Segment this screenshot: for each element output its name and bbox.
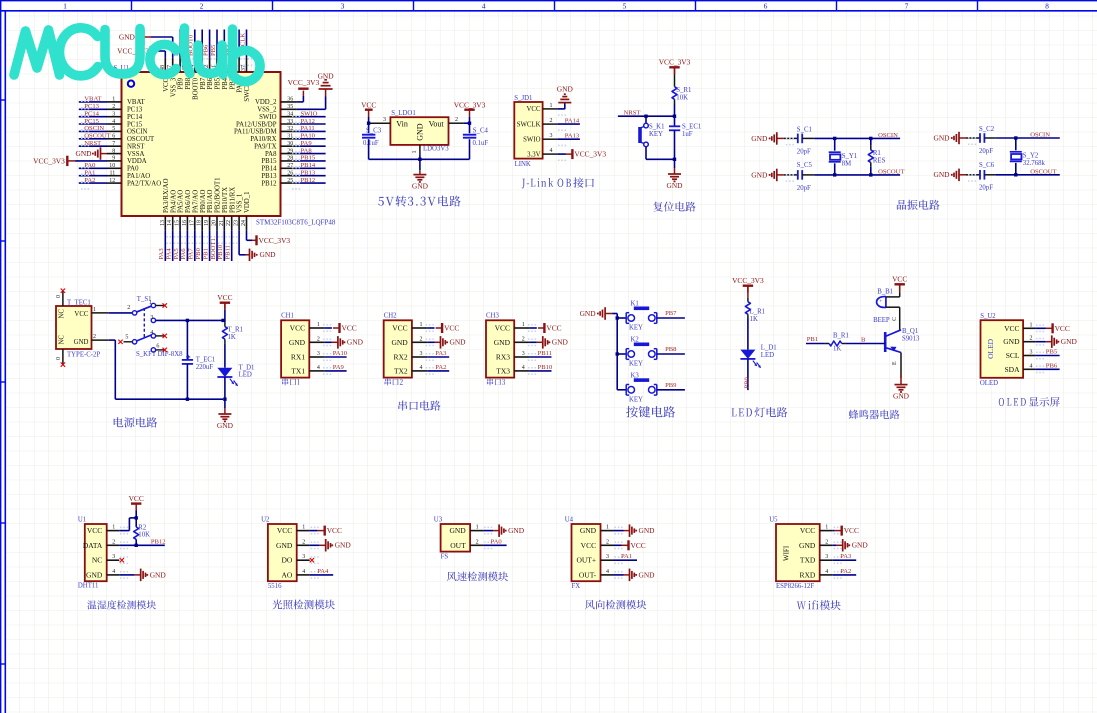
svg-text:GND: GND [335, 541, 352, 550]
svg-text:0: 0 [56, 357, 62, 360]
svg-text:PB10: PB10 [538, 364, 553, 371]
svg-text:VCC: VCC [546, 324, 561, 333]
svg-text:VCC: VCC [217, 293, 232, 302]
svg-text:4: 4 [302, 569, 305, 575]
svg-text:PA1: PA1 [621, 553, 632, 560]
svg-text:1: 1 [420, 322, 423, 328]
svg-text:6: 6 [112, 134, 115, 140]
svg-text:KEY: KEY [629, 396, 643, 403]
svg-text:PA0: PA0 [491, 538, 503, 545]
svg-text:21: 21 [219, 220, 225, 226]
svg-text:1: 1 [476, 525, 479, 531]
svg-text:S_C3: S_C3 [366, 127, 382, 134]
svg-text:5: 5 [112, 126, 115, 132]
svg-text:2: 2 [112, 539, 115, 545]
svg-text:GND: GND [1003, 337, 1020, 346]
svg-text:GND: GND [508, 526, 525, 535]
svg-text:TYPE-C-2P: TYPE-C-2P [67, 352, 100, 359]
svg-text:PA7: PA7 [188, 248, 195, 260]
svg-text:GND: GND [852, 541, 869, 550]
svg-text:OSCIN: OSCIN [84, 125, 104, 132]
svg-text:OSCIN: OSCIN [878, 132, 898, 139]
svg-text:PA6: PA6 [180, 248, 187, 260]
svg-text:OUT-: OUT- [579, 570, 597, 579]
svg-text:SWIO: SWIO [301, 111, 318, 118]
svg-text:GND: GND [318, 71, 335, 80]
svg-text:WIFI: WIFI [782, 545, 790, 561]
svg-text:GND: GND [119, 32, 136, 41]
svg-text:PB5: PB5 [1046, 349, 1058, 356]
svg-text:2: 2 [127, 305, 130, 311]
svg-text:OLED: OLED [986, 338, 995, 359]
svg-text:1: 1 [825, 525, 828, 531]
svg-text:VDDA: VDDA [127, 158, 147, 165]
svg-text:PA3: PA3 [158, 248, 165, 260]
svg-text:S_EC1: S_EC1 [682, 124, 701, 131]
svg-text:PA0: PA0 [127, 166, 139, 173]
svg-text:12: 12 [109, 178, 115, 184]
svg-text:TXD: TXD [800, 556, 816, 565]
svg-text:PC14: PC14 [84, 111, 99, 118]
svg-text:PB13: PB13 [301, 170, 316, 177]
svg-text:11: 11 [110, 171, 116, 177]
svg-text:PA4: PA4 [317, 568, 329, 575]
svg-text:PB1: PB1 [202, 248, 209, 259]
svg-text:OSCIN: OSCIN [1030, 132, 1050, 139]
svg-text:VCC: VCC [495, 324, 510, 333]
svg-text:3.3V: 3.3V [527, 151, 540, 158]
svg-text:PA13: PA13 [565, 133, 580, 140]
svg-text:K1: K1 [631, 301, 639, 308]
svg-text:K2: K2 [631, 337, 640, 344]
svg-text:OUT+: OUT+ [576, 556, 596, 565]
svg-text:3: 3 [420, 351, 423, 357]
svg-text:1: 1 [412, 151, 418, 154]
svg-text:4: 4 [606, 569, 609, 575]
svg-text:PB12: PB12 [301, 177, 316, 184]
svg-text:VCC: VCC [631, 541, 646, 550]
svg-text:2: 2 [825, 539, 828, 545]
svg-text:PA2: PA2 [840, 568, 851, 575]
svg-text:4: 4 [420, 365, 423, 371]
svg-text:GND: GND [75, 149, 92, 158]
svg-text:8M: 8M [842, 160, 851, 167]
svg-text:VCC: VCC [361, 101, 376, 110]
svg-text:PB6: PB6 [1046, 362, 1058, 369]
svg-text:VSSA: VSSA [127, 151, 144, 158]
svg-text:T_R1: T_R1 [228, 327, 243, 334]
svg-text:VCC: VCC [129, 494, 144, 503]
svg-text:R2: R2 [138, 524, 147, 531]
svg-text:PB14: PB14 [301, 162, 316, 169]
svg-text:U5: U5 [769, 516, 778, 523]
svg-text:OSCOUT: OSCOUT [127, 136, 155, 143]
svg-text:GND: GND [751, 134, 768, 143]
svg-text:S_R1: S_R1 [676, 87, 691, 94]
svg-text:PA12/USB/DP: PA12/USB/DP [236, 121, 277, 128]
svg-text:PA7/AO: PA7/AO [192, 190, 199, 213]
svg-text:36: 36 [287, 97, 293, 103]
svg-text:LDO3V3: LDO3V3 [423, 146, 449, 153]
svg-text:GND: GND [933, 170, 950, 179]
svg-text:VDD_2: VDD_2 [255, 99, 277, 106]
svg-text:4: 4 [550, 148, 553, 154]
svg-text:VCC: VCC [74, 311, 88, 318]
svg-text:1K: 1K [750, 316, 758, 323]
svg-text:22: 22 [226, 220, 232, 226]
svg-text:7: 7 [112, 141, 115, 147]
svg-text:VCC: VCC [892, 275, 907, 284]
svg-text:FS: FS [441, 554, 449, 561]
svg-text:KEY: KEY [629, 325, 643, 332]
svg-text:DHT11: DHT11 [78, 583, 99, 590]
svg-text:PC15: PC15 [127, 121, 143, 128]
svg-text:GND: GND [666, 181, 683, 190]
svg-text:E: E [892, 361, 898, 365]
svg-text:VCC: VCC [1055, 324, 1070, 333]
svg-text:NRST: NRST [624, 109, 641, 116]
svg-text:S_C4: S_C4 [473, 127, 489, 134]
svg-text:GND: GND [933, 133, 950, 142]
svg-text:FX: FX [572, 583, 581, 590]
svg-text:1: 1 [302, 525, 305, 531]
svg-text:VDD_1: VDD_1 [244, 191, 251, 213]
svg-text:GND: GND [450, 338, 467, 347]
svg-text:3: 3 [302, 554, 305, 560]
svg-text:PA9: PA9 [333, 364, 345, 371]
svg-text:PA11/USB/DM: PA11/USB/DM [234, 129, 277, 136]
svg-text:VCC: VCC [581, 541, 596, 550]
svg-text:2: 2 [1030, 336, 1033, 342]
svg-text:S9013: S9013 [902, 336, 920, 343]
svg-text:3: 3 [606, 554, 609, 560]
svg-text:PB15: PB15 [261, 158, 277, 165]
svg-text:1: 1 [112, 525, 115, 531]
svg-text:1K: 1K [833, 345, 841, 352]
svg-text:23: 23 [234, 220, 240, 226]
svg-text:U2: U2 [261, 516, 270, 523]
svg-text:6: 6 [156, 344, 159, 350]
svg-text:2: 2 [200, 2, 204, 10]
svg-text:CH3: CH3 [486, 313, 499, 320]
svg-text:GND: GND [1061, 337, 1078, 346]
svg-text:PA10: PA10 [333, 350, 348, 357]
svg-text:CH1: CH1 [281, 313, 294, 320]
svg-text:GND: GND [150, 570, 167, 579]
svg-text:PA8: PA8 [301, 147, 313, 154]
svg-text:RX1: RX1 [291, 353, 305, 362]
svg-text:OSCOUT: OSCOUT [1030, 168, 1056, 175]
svg-text:VSS_2: VSS_2 [257, 107, 277, 114]
svg-text:PB13: PB13 [261, 173, 277, 180]
svg-text:GND: GND [639, 570, 656, 579]
svg-text:R1: R1 [873, 150, 881, 157]
svg-text:GND: GND [494, 338, 511, 347]
svg-text:3: 3 [522, 351, 525, 357]
svg-text:S_C5: S_C5 [797, 162, 813, 169]
svg-text:U1: U1 [78, 516, 86, 523]
svg-text:15: 15 [175, 220, 181, 226]
svg-text:PB8: PB8 [185, 77, 192, 89]
svg-text:PB6: PB6 [202, 44, 209, 56]
svg-text:PB5: PB5 [215, 77, 222, 89]
svg-text:PB10/TX: PB10/TX [222, 187, 229, 213]
svg-text:3: 3 [150, 315, 153, 321]
svg-text:T_EC1: T_EC1 [196, 356, 216, 363]
svg-text:PC14: PC14 [127, 114, 143, 121]
svg-text:PA0: PA0 [84, 162, 96, 169]
svg-text:PB11: PB11 [225, 245, 232, 259]
svg-text:14: 14 [167, 220, 173, 226]
svg-text:1: 1 [1030, 322, 1033, 328]
svg-text:NC: NC [59, 309, 66, 319]
svg-text:4: 4 [825, 569, 828, 575]
svg-text:PA9: PA9 [301, 140, 313, 147]
svg-text:PA10: PA10 [301, 133, 316, 140]
svg-text:4: 4 [482, 2, 486, 10]
svg-text:PA14: PA14 [565, 118, 580, 125]
svg-text:2: 2 [606, 539, 609, 545]
svg-text:PA5: PA5 [173, 248, 180, 260]
svg-text:PC15: PC15 [84, 118, 99, 125]
svg-text:AO: AO [281, 570, 292, 579]
svg-text:VBAT: VBAT [127, 99, 146, 106]
svg-text:GND: GND [639, 526, 656, 535]
svg-text:20pF: 20pF [979, 148, 993, 155]
svg-text:T_D1: T_D1 [239, 364, 255, 371]
svg-text:20pF: 20pF [797, 148, 811, 155]
svg-text:PA3/RX/AO: PA3/RX/AO [163, 178, 170, 213]
svg-text:PB0: PB0 [195, 247, 202, 259]
svg-text:PB0/AO: PB0/AO [200, 189, 207, 213]
svg-text:GND: GND [391, 338, 408, 347]
svg-text:NRST: NRST [127, 144, 145, 151]
svg-text:PB9: PB9 [178, 77, 185, 89]
svg-text:VCC: VCC [342, 324, 357, 333]
svg-text:2: 2 [550, 118, 553, 124]
svg-text:PB8: PB8 [665, 346, 677, 353]
svg-text:VCC: VCC [800, 526, 815, 535]
svg-text:VCC: VCC [444, 324, 459, 333]
svg-text:PA3: PA3 [435, 350, 447, 357]
svg-text:VCC_3V3: VCC_3V3 [454, 101, 486, 110]
svg-text:RES: RES [873, 158, 886, 165]
svg-text:VSS_3: VSS_3 [170, 77, 177, 97]
svg-text:24: 24 [241, 220, 247, 226]
svg-text:18: 18 [197, 220, 203, 226]
svg-text:PC13: PC13 [84, 103, 99, 110]
svg-text:PB10: PB10 [217, 244, 224, 259]
svg-text:2: 2 [455, 117, 458, 123]
svg-text:3: 3 [383, 117, 386, 123]
svg-text:VCC_3V3: VCC_3V3 [574, 150, 606, 159]
svg-text:7: 7 [905, 2, 909, 10]
svg-text:PA3: PA3 [840, 553, 852, 560]
svg-text:VCC: VCC [277, 526, 292, 535]
svg-text:3: 3 [341, 2, 345, 10]
svg-text:GND: GND [289, 338, 306, 347]
svg-text:PA4/AO: PA4/AO [170, 190, 177, 213]
svg-text:GND: GND [347, 338, 364, 347]
svg-text:+: + [879, 299, 882, 305]
svg-text:VCC: VCC [527, 106, 541, 113]
svg-text:16: 16 [182, 220, 188, 226]
svg-text:4: 4 [317, 365, 320, 371]
svg-text:KEY: KEY [629, 361, 643, 368]
svg-text:L_R1: L_R1 [750, 309, 765, 316]
svg-text:10K: 10K [676, 95, 688, 102]
svg-text:SCL: SCL [1006, 351, 1020, 360]
svg-text:20pF: 20pF [797, 185, 811, 192]
svg-text:PA1: PA1 [84, 170, 95, 177]
svg-text:PA5/AO: PA5/AO [178, 190, 185, 213]
svg-text:LINK: LINK [515, 161, 531, 168]
svg-text:8: 8 [1045, 2, 1049, 10]
svg-text:2: 2 [302, 539, 305, 545]
svg-text:SWIO: SWIO [259, 114, 276, 121]
svg-text:1: 1 [522, 322, 525, 328]
svg-text:GND: GND [557, 85, 574, 94]
svg-text:B: B [861, 336, 866, 343]
svg-text:VBAT: VBAT [84, 96, 101, 103]
svg-text:NRST: NRST [84, 140, 101, 147]
svg-text:Vin: Vin [396, 119, 408, 128]
svg-text:PA2: PA2 [435, 364, 446, 371]
svg-text:CH2: CH2 [384, 313, 397, 320]
svg-text:VCC_3V3: VCC_3V3 [259, 236, 291, 245]
svg-text:PA1/AO: PA1/AO [127, 173, 150, 180]
svg-text:PA8: PA8 [265, 151, 277, 158]
svg-text:0.1uF: 0.1uF [363, 140, 379, 147]
svg-text:S_C2: S_C2 [979, 126, 995, 133]
svg-text:NC: NC [92, 556, 102, 565]
svg-text:4: 4 [112, 119, 115, 125]
svg-text:PA10/RX: PA10/RX [250, 136, 276, 143]
svg-text:VCC: VCC [1004, 324, 1019, 333]
svg-text:VCC_3V3: VCC_3V3 [33, 156, 65, 165]
svg-text:20pF: 20pF [979, 185, 993, 192]
svg-text:2: 2 [317, 336, 320, 342]
svg-text:17: 17 [189, 220, 195, 226]
svg-text:2: 2 [112, 104, 115, 110]
svg-text:BOOT0: BOOT0 [192, 77, 199, 100]
svg-text:220uF: 220uF [196, 364, 214, 371]
svg-text:PA12: PA12 [301, 118, 315, 125]
svg-text:32.768k: 32.768k [1023, 160, 1046, 167]
svg-text:5: 5 [623, 2, 627, 10]
svg-text:PB9: PB9 [665, 382, 677, 389]
svg-text:4: 4 [150, 330, 153, 336]
svg-text:1uF: 1uF [682, 131, 693, 138]
svg-text:4: 4 [112, 569, 115, 575]
svg-text:PB7: PB7 [665, 310, 677, 317]
svg-text:S_U2: S_U2 [980, 313, 996, 320]
svg-text:C: C [892, 317, 898, 321]
svg-text:3: 3 [825, 554, 828, 560]
svg-text:1: 1 [93, 307, 96, 313]
svg-text:S_C1: S_C1 [797, 127, 812, 134]
svg-text:S_KFT DIP-8X8: S_KFT DIP-8X8 [136, 351, 183, 358]
svg-text:6: 6 [764, 2, 768, 10]
svg-text:PB1: PB1 [807, 336, 818, 343]
svg-text:PB12: PB12 [151, 538, 166, 545]
svg-text:1: 1 [149, 300, 152, 306]
svg-text:S_Y1: S_Y1 [842, 153, 858, 160]
svg-text:VCC_3V3: VCC_3V3 [732, 276, 764, 285]
svg-text:KEY: KEY [649, 131, 663, 138]
svg-text:B_B1: B_B1 [877, 289, 893, 296]
svg-text:PB1/AO: PB1/AO [207, 189, 214, 213]
svg-text:PA2: PA2 [84, 177, 95, 184]
svg-text:PB12: PB12 [261, 180, 277, 187]
svg-text:PB15: PB15 [301, 155, 316, 162]
svg-text:GND: GND [552, 338, 569, 347]
svg-text:1: 1 [606, 525, 609, 531]
svg-text:4: 4 [522, 365, 525, 371]
svg-text:U3: U3 [434, 516, 443, 523]
svg-text:RXD: RXD [799, 570, 815, 579]
svg-text:37: 37 [241, 65, 247, 71]
svg-text:PC13: PC13 [127, 107, 143, 114]
svg-text:GND: GND [449, 526, 466, 535]
svg-text:DO: DO [281, 556, 292, 565]
svg-text:10K: 10K [138, 532, 150, 539]
svg-text:35: 35 [287, 104, 293, 110]
svg-text:PB11: PB11 [538, 350, 552, 357]
svg-text:LED: LED [761, 352, 774, 359]
svg-text:PB11/RX: PB11/RX [229, 187, 236, 213]
svg-text:GND: GND [580, 526, 597, 535]
svg-text:GND: GND [86, 570, 103, 579]
svg-text:S_LDO1: S_LDO1 [391, 110, 416, 117]
svg-text:SWCLK: SWCLK [517, 121, 541, 128]
svg-text:1: 1 [112, 97, 115, 103]
svg-text:VCC: VCC [327, 526, 342, 535]
svg-text:PA6/AO: PA6/AO [185, 190, 192, 213]
svg-text:L_D1: L_D1 [761, 345, 777, 352]
svg-text:GND: GND [412, 182, 429, 191]
svg-text:VCC_3V3: VCC_3V3 [288, 78, 320, 87]
svg-text:0: 0 [56, 295, 62, 298]
svg-text:19: 19 [204, 220, 210, 226]
svg-text:0.1uF: 0.1uF [473, 140, 489, 147]
svg-text:TX2: TX2 [394, 366, 408, 375]
svg-text:GND: GND [276, 541, 293, 550]
svg-text:8: 8 [112, 148, 115, 154]
svg-text:3: 3 [112, 554, 115, 560]
svg-text:S_K1: S_K1 [649, 124, 665, 131]
svg-text:4: 4 [1030, 363, 1033, 369]
svg-text:GND: GND [416, 123, 425, 141]
svg-text:PA2/TX/AO: PA2/TX/AO [127, 180, 161, 187]
svg-text:SWIO: SWIO [523, 137, 540, 144]
svg-text:1: 1 [63, 2, 67, 10]
svg-text:GND: GND [893, 392, 910, 401]
svg-text:GND: GND [799, 541, 816, 550]
svg-text:S_C6: S_C6 [979, 162, 995, 169]
svg-text:RX3: RX3 [496, 353, 510, 362]
svg-text:B_R1: B_R1 [833, 333, 849, 340]
svg-text:SDA: SDA [1004, 365, 1020, 374]
svg-text:1: 1 [550, 103, 553, 109]
svg-text:U4: U4 [565, 516, 574, 523]
svg-text:VCC: VCC [844, 526, 859, 535]
svg-text:K3: K3 [631, 372, 640, 379]
svg-text:BEEP: BEEP [873, 317, 890, 324]
svg-text:2: 2 [476, 539, 479, 545]
svg-text:2: 2 [420, 336, 423, 342]
svg-text:GND: GND [580, 309, 597, 318]
